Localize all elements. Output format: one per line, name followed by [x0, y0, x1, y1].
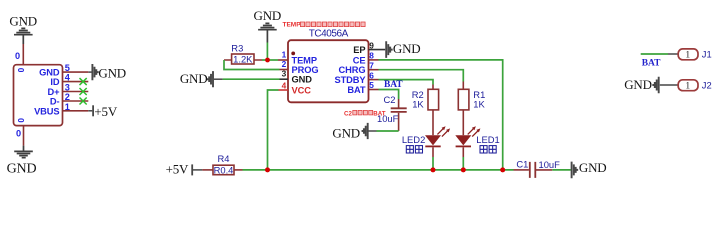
- pin 3 GND: [280, 69, 313, 85]
- wire VCC-to-rail: [268, 90, 279, 170]
- pin 4 ID: [50, 73, 88, 87]
- wire BAT-to-C2: [379, 90, 399, 100]
- svg-text:6: 6: [369, 70, 374, 80]
- no-connect X on pin 2: [80, 98, 87, 105]
- svg-text:8: 8: [369, 51, 374, 61]
- pin 4 VCC: [279, 81, 312, 96]
- svg-text:1: 1: [65, 102, 70, 112]
- power flag +5V (rail): [166, 162, 203, 177]
- svg-text:4: 4: [65, 73, 71, 83]
- svg-text:C2: C2: [344, 110, 352, 117]
- svg-text:2: 2: [282, 59, 287, 69]
- ground flag at C1: [572, 160, 607, 178]
- svg-text:J2: J2: [702, 79, 712, 90]
- annotation red note TEMP: [283, 22, 366, 29]
- net label GND (J2): [624, 77, 652, 92]
- svg-text:1K: 1K: [473, 99, 485, 110]
- svg-text:R3: R3: [231, 43, 243, 54]
- svg-text:1.2K: 1.2K: [233, 54, 253, 65]
- svg-text:LED2: LED2: [402, 134, 425, 145]
- wire BAT stub at J1: [641, 53, 668, 55]
- svg-text:0: 0: [16, 129, 21, 139]
- op-amp U1 TC4056A body: [288, 40, 369, 102]
- svg-text:2: 2: [65, 92, 70, 102]
- pin 7 CHRG: [339, 60, 379, 75]
- power flag +5V at VBUS: [88, 104, 118, 119]
- label green (CJK) for LED2: [406, 146, 422, 153]
- svg-text:3: 3: [65, 83, 70, 93]
- no-connect X on pin 3: [80, 88, 87, 95]
- resistor R2: [412, 85, 439, 136]
- svg-text:GND: GND: [39, 68, 60, 78]
- pin 5 BAT: [347, 80, 378, 95]
- connector P1 USB body: [14, 65, 63, 126]
- svg-text:+5V: +5V: [166, 162, 189, 177]
- junction rail/LED2: [431, 167, 436, 172]
- op-amp U1 TC4056A title: [309, 28, 349, 39]
- svg-text:GND: GND: [332, 126, 360, 141]
- net label BAT: [384, 80, 403, 90]
- svg-text:VCC: VCC: [292, 86, 312, 96]
- svg-text:VBUS: VBUS: [34, 106, 59, 116]
- svg-text:BAT: BAT: [384, 80, 403, 90]
- svg-text:D-: D-: [50, 97, 60, 107]
- capacitor C2: [377, 94, 407, 131]
- wire rail R4-to-C1: [243, 169, 514, 171]
- svg-text:1: 1: [685, 51, 690, 61]
- svg-text:TEMP: TEMP: [292, 56, 317, 66]
- svg-text:EP: EP: [353, 45, 365, 55]
- svg-text:0: 0: [16, 118, 26, 123]
- junction rail/VCC: [265, 167, 270, 172]
- svg-text:C1: C1: [516, 158, 528, 169]
- svg-text:GND: GND: [579, 160, 607, 175]
- svg-text:10uF: 10uF: [539, 159, 561, 170]
- connector J1: [668, 49, 712, 61]
- net label BAT (J1): [642, 58, 661, 68]
- net label GND (top left): [9, 14, 37, 29]
- ground flag at J2: [653, 77, 678, 94]
- svg-text:0: 0: [16, 67, 26, 72]
- wire R3-to-PROG: [224, 60, 280, 70]
- resistor R4: [202, 164, 242, 175]
- wire C1-to-GNDflag: [552, 169, 571, 171]
- svg-text:5: 5: [369, 80, 374, 90]
- svg-text:5: 5: [65, 63, 70, 73]
- wire C2-to-GNDflag: [377, 130, 399, 132]
- pin 0 (USB shield, top): [15, 44, 26, 72]
- resistor R3: [224, 54, 262, 65]
- net label GND (above R3 node): [254, 8, 282, 23]
- LED1: [455, 126, 499, 170]
- svg-text:+5V: +5V: [94, 104, 117, 119]
- pin 8 CE: [353, 51, 379, 66]
- ground (bottom left): [14, 146, 33, 158]
- wire R3-to-node: [262, 59, 278, 61]
- ground flag at pin 9: [386, 41, 420, 58]
- resistor R3 label: [231, 43, 243, 54]
- svg-text:1: 1: [282, 49, 287, 59]
- resistor R4 label: [218, 153, 230, 164]
- svg-text:BAT: BAT: [347, 85, 366, 95]
- junction rail/CE: [500, 167, 505, 172]
- svg-text:LED1: LED1: [476, 134, 499, 145]
- svg-text:CHRG: CHRG: [339, 65, 366, 75]
- svg-text:J1: J1: [702, 49, 712, 60]
- svg-text:0: 0: [15, 51, 20, 61]
- annotation red note C2: [344, 110, 386, 117]
- wire GND-to-node: [266, 43, 268, 61]
- svg-text:GND: GND: [292, 75, 313, 85]
- svg-text:R4: R4: [218, 153, 230, 164]
- label red (CJK) for LED1: [480, 146, 496, 153]
- pin 6 STDBY: [334, 70, 378, 85]
- pin 2 PROG: [280, 59, 319, 75]
- junction node TEMP/R3/GND: [265, 58, 270, 63]
- svg-text:9: 9: [369, 41, 374, 51]
- ground flag at C2: [332, 123, 376, 141]
- wire GNDflag-to-pin3: [223, 78, 280, 80]
- svg-text:GND: GND: [9, 14, 37, 29]
- svg-text:TC4056A: TC4056A: [309, 28, 349, 39]
- svg-text:7: 7: [369, 60, 374, 70]
- svg-text:ID: ID: [50, 77, 59, 87]
- svg-text:CE: CE: [353, 55, 366, 65]
- pin 1 VBUS: [34, 102, 88, 116]
- pin 3 D+: [48, 83, 89, 97]
- svg-text:C2: C2: [384, 94, 396, 105]
- pin 5 GND: [39, 63, 88, 77]
- capacitor C1: [514, 158, 561, 178]
- LED2: [402, 126, 450, 170]
- svg-text:1: 1: [685, 82, 690, 92]
- svg-text:3: 3: [282, 69, 287, 79]
- svg-text:GND: GND: [254, 8, 282, 23]
- wire CE-to-rail: [379, 60, 503, 170]
- ground flag at pin 5: [88, 64, 126, 81]
- pin 0 (USB shield, bottom): [16, 118, 26, 146]
- svg-text:GND: GND: [7, 161, 37, 176]
- svg-text:4: 4: [282, 81, 287, 91]
- ground flag at pin 3: [180, 71, 223, 87]
- svg-text:D+: D+: [48, 87, 61, 97]
- connector J2: [678, 79, 712, 91]
- svg-text:GND: GND: [180, 71, 208, 86]
- svg-text:TEMP: TEMP: [283, 22, 302, 29]
- svg-text:GND: GND: [393, 41, 421, 56]
- net label GND (bottom left): [7, 161, 37, 176]
- svg-text:GND: GND: [624, 77, 652, 92]
- resistor R1: [458, 82, 485, 136]
- ground (top left): [14, 28, 33, 44]
- ground (above R3 node): [258, 23, 277, 42]
- wire STDBY-to-R2: [379, 80, 434, 85]
- svg-text:R0.4: R0.4: [214, 164, 234, 175]
- svg-text:STDBY: STDBY: [334, 75, 366, 85]
- pin 1 TEMP: [278, 49, 317, 65]
- wire CHRG-to-R1: [379, 70, 464, 82]
- no-connect X on pin 4: [80, 78, 87, 85]
- pin 2 D-: [50, 92, 88, 106]
- svg-text:GND: GND: [98, 66, 126, 81]
- svg-text:PROG: PROG: [292, 65, 319, 75]
- svg-text:1K: 1K: [412, 99, 424, 110]
- svg-text:BAT: BAT: [373, 110, 385, 117]
- junction rail/LED1: [461, 167, 466, 172]
- pin 9 EP: [353, 41, 385, 55]
- svg-text:BAT: BAT: [642, 58, 661, 68]
